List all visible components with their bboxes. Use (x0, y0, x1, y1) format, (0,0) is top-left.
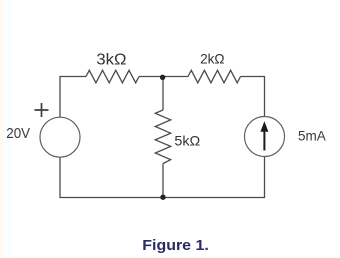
wire: 2k resistor to top-right corner down to current source (241, 77, 265, 117)
resistor R3 5kΩ vertical zigzag (155, 110, 170, 164)
current source I1 circle (245, 117, 285, 157)
svg-text:5mA: 5mA (298, 127, 326, 143)
wire: middle branch lower segment (162, 164, 164, 198)
node A junction dot top (160, 75, 165, 80)
resistor R2 2kΩ zigzag (188, 70, 241, 83)
resistor R1 3kΩ zigzag (86, 70, 139, 83)
wire: middle branch upper segment (162, 77, 164, 111)
svg-text:5kΩ: 5kΩ (174, 133, 200, 149)
left page-edge tint (0, 0, 4, 258)
current source arrow (263, 131, 265, 151)
svg-text:20V: 20V (6, 125, 30, 142)
svg-text:2kΩ: 2kΩ (200, 50, 225, 66)
wire: 3k resistor to middle node (139, 76, 188, 78)
plus sign of voltage source (35, 103, 49, 117)
voltage source V1 circle (40, 117, 80, 157)
svg-text:3kΩ: 3kΩ (96, 52, 126, 69)
node B junction dot bottom (160, 195, 165, 200)
svg-text:Figure 1.: Figure 1. (142, 237, 209, 254)
wire: bottom rail (60, 157, 265, 198)
wire top-left: from top of voltage source up and right to 3k resistor (60, 77, 86, 118)
